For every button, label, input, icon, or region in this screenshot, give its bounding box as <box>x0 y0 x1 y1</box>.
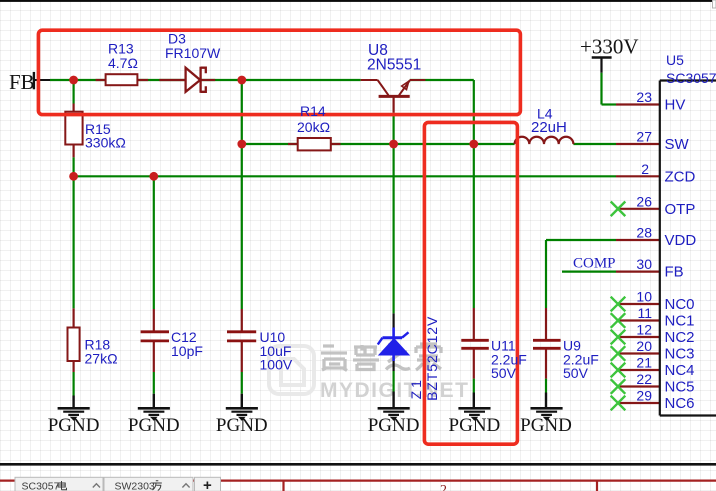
svg-text:21: 21 <box>636 355 652 371</box>
svg-text:22uH: 22uH <box>531 119 567 136</box>
svg-text:Z1: Z1 <box>408 377 424 399</box>
svg-text:PGND: PGND <box>368 415 420 436</box>
svg-text:4.7Ω: 4.7Ω <box>108 55 138 71</box>
svg-text:23: 23 <box>636 89 652 105</box>
svg-text:30: 30 <box>636 256 652 272</box>
svg-text:27: 27 <box>636 129 652 145</box>
svg-text:FB: FB <box>665 264 684 281</box>
svg-text:20: 20 <box>636 338 652 354</box>
svg-text:PGND: PGND <box>128 415 180 436</box>
svg-text:NC0: NC0 <box>665 296 695 313</box>
svg-text:SW2303: SW2303 <box>115 481 155 491</box>
svg-text:PGND: PGND <box>48 415 100 436</box>
svg-text:50V: 50V <box>491 365 517 381</box>
svg-text:330kΩ: 330kΩ <box>85 135 126 151</box>
svg-text:PGND: PGND <box>520 415 572 436</box>
svg-text:29: 29 <box>636 388 652 404</box>
svg-text:SC3057: SC3057 <box>22 481 60 491</box>
svg-text:NC5: NC5 <box>665 379 695 396</box>
svg-text:2N5551: 2N5551 <box>367 57 421 74</box>
svg-text:2: 2 <box>440 483 447 491</box>
svg-text:+330V: +330V <box>580 35 639 59</box>
svg-text:SC3057: SC3057 <box>666 70 716 86</box>
svg-text:10pF: 10pF <box>171 343 203 359</box>
svg-text:SW: SW <box>665 136 690 153</box>
svg-text:U5: U5 <box>666 52 684 68</box>
svg-text:HV: HV <box>665 97 686 114</box>
svg-text:100V: 100V <box>260 357 293 373</box>
svg-text:NC4: NC4 <box>665 362 695 379</box>
svg-text:OTP: OTP <box>665 201 696 218</box>
svg-text:26: 26 <box>636 193 652 209</box>
svg-text:50V: 50V <box>563 365 589 381</box>
svg-text:COMP: COMP <box>573 256 616 272</box>
svg-text:FR107W: FR107W <box>165 45 221 61</box>
svg-text:BZT52C12V: BZT52C12V <box>424 316 440 401</box>
svg-text:NC6: NC6 <box>665 395 695 412</box>
svg-text:27kΩ: 27kΩ <box>85 351 118 367</box>
svg-text:10: 10 <box>636 289 652 305</box>
svg-text:22: 22 <box>636 371 652 387</box>
svg-text:28: 28 <box>636 225 652 241</box>
svg-text:12: 12 <box>636 322 652 338</box>
svg-text:NC2: NC2 <box>665 329 695 346</box>
svg-text:2: 2 <box>641 161 649 177</box>
svg-text:VDD: VDD <box>665 232 697 249</box>
svg-text:11: 11 <box>637 305 652 321</box>
svg-text:NC3: NC3 <box>665 346 695 363</box>
svg-text:NC1: NC1 <box>665 313 695 330</box>
svg-text:R14: R14 <box>300 103 326 119</box>
svg-text:PGND: PGND <box>216 415 268 436</box>
svg-text:20kΩ: 20kΩ <box>297 119 330 135</box>
svg-text:FB: FB <box>9 70 35 94</box>
svg-text:ZCD: ZCD <box>665 168 696 185</box>
svg-text:PGND: PGND <box>449 415 501 436</box>
svg-text:+: + <box>203 477 212 491</box>
